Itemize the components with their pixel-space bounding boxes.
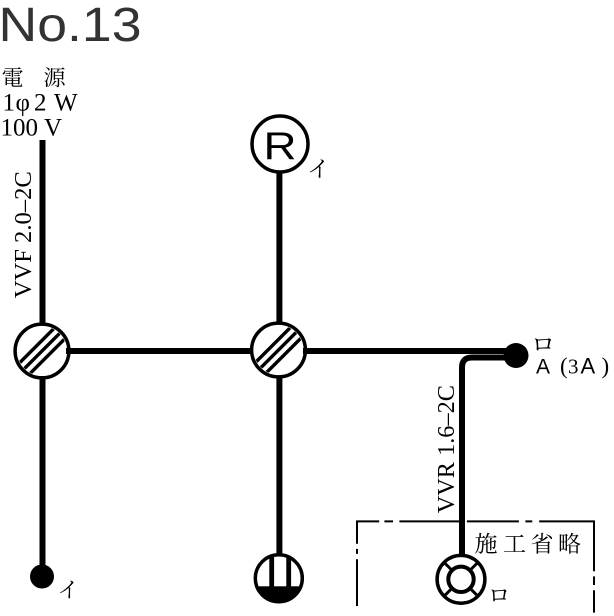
svg-text:ロ: ロ (488, 580, 511, 610)
svg-text:ロ: ロ (531, 329, 556, 359)
junction box J1 (hatched circle) (15, 324, 69, 378)
wire: J1 to J2 (horizontal) (66, 348, 254, 354)
svg-text:100V: 100V (1, 115, 63, 142)
wire: A down to outdoor light (VVR 1.6-2C) (462, 358, 506, 557)
svg-text:イ: イ (307, 151, 330, 184)
wire: J1 down to switch イ (40, 376, 46, 566)
wire: J2 right to automatic switch A (303, 348, 506, 354)
svg-text:R: R (264, 125, 297, 168)
dashed box 施工省略 (work omitted) (356, 521, 595, 612)
svg-text:1φ2W: 1φ2W (3, 90, 79, 117)
switch イ (black dot) (30, 565, 54, 589)
lamp receptacle R (252, 116, 308, 172)
ceiling rosette (引掛シーリング) (253, 553, 305, 606)
svg-text:イ: イ (57, 574, 79, 605)
svg-text:VVR 1.6–2C: VVR 1.6–2C (433, 385, 460, 513)
wire: R down to J2 (276, 172, 282, 324)
svg-text:VVF 2.0–2C: VVF 2.0–2C (10, 171, 37, 298)
junction box J2 (hatched circle) (252, 323, 306, 377)
wire: J2 down to ceiling rosette (276, 376, 282, 556)
wire: source to junction box 1 (vertical, VVF 2.0-2C) (40, 140, 46, 326)
outdoor light (屋外灯) (437, 555, 485, 603)
svg-text:No.13: No.13 (0, 0, 142, 52)
automatic switch A(3A) black dot (504, 343, 529, 368)
